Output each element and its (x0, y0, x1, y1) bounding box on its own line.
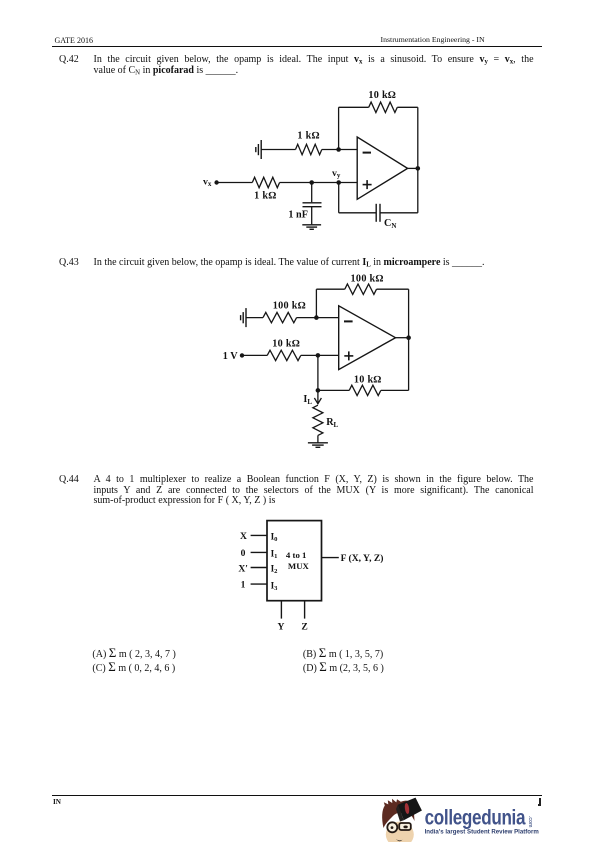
wire opamp output (396, 337, 409, 339)
resistor Rf 100 kOhm (top feedback) (316, 284, 408, 294)
svg-text:0: 0 (241, 548, 246, 559)
resistor R1 1 kOhm (to inverting input) (261, 144, 338, 154)
multiplexer U3 4-to-1 MUX box (267, 521, 322, 601)
footer rule (52, 795, 542, 796)
node output junction (416, 166, 421, 171)
svg-text:Z: Z (301, 622, 307, 633)
resistor R2 1 kOhm (input) (217, 177, 312, 187)
node junction inverting input (336, 147, 341, 152)
wire feedback left vertical (338, 107, 340, 149)
wire bottom feedback run (339, 168, 418, 212)
svg-text:100 kΩ: 100 kΩ (273, 301, 306, 312)
footer page number 1 (539, 798, 541, 804)
option D (303, 662, 384, 674)
ground (below 1 nF) (302, 225, 321, 230)
capacitor C1 1 nF (303, 183, 322, 225)
svg-text:Y: Y (278, 622, 285, 633)
svg-text:X: X (240, 531, 247, 542)
Q.43 text (59, 258, 536, 268)
wire to noninverting pin (318, 354, 339, 356)
header right: Instrumentation Engineering - IN (381, 35, 485, 44)
Q.44 text (59, 475, 536, 506)
svg-text:vy: vy (332, 168, 341, 180)
capacitor CN (feedback) (376, 204, 380, 222)
node junction load tap (316, 388, 321, 393)
ground (inverting input side, rotated) (256, 140, 261, 159)
svg-text:10 kΩ: 10 kΩ (354, 375, 382, 386)
wire RL to ground (317, 435, 319, 442)
svg-text:MUX: MUX (288, 561, 310, 571)
node junction noninverting input (316, 353, 321, 358)
option A (92, 648, 175, 660)
node input terminal 1V (240, 353, 244, 357)
wire opamp output (408, 167, 418, 169)
option B (303, 648, 383, 660)
node junction vy (336, 180, 341, 185)
svg-text:I1: I1 (271, 548, 278, 560)
wire feedback right vertical (417, 107, 419, 168)
header left: GATE 2016 (55, 36, 93, 45)
wire feedback left vertical (315, 289, 317, 317)
svg-text:RL: RL (326, 417, 338, 429)
svg-text:collegedunia: collegedunia (425, 805, 526, 829)
wire input 1 (251, 583, 267, 585)
wire IL arrow (314, 390, 321, 403)
svg-text:vx: vx (203, 177, 212, 189)
svg-text:India's largest Student Review: India's largest Student Review Platform (425, 828, 540, 835)
node junction inverting input (314, 315, 319, 320)
Q.42 text (59, 55, 536, 76)
op-amp U1 (357, 137, 407, 199)
svg-text:I2: I2 (271, 563, 279, 575)
svg-text:.com: .com (527, 816, 533, 828)
svg-text:I3: I3 (271, 580, 279, 592)
option C (92, 662, 175, 674)
node output junction (406, 335, 411, 340)
op-amp U2 (339, 306, 396, 370)
node input terminal vx (214, 180, 218, 184)
svg-text:1: 1 (241, 580, 246, 591)
svg-text:X′: X′ (238, 563, 248, 574)
svg-text:10 kΩ: 10 kΩ (272, 338, 300, 349)
node junction capacitor tap (309, 180, 314, 185)
svg-text:100 kΩ: 100 kΩ (351, 273, 384, 284)
wire select Z (304, 601, 306, 619)
ground (inverting input side, rotated) (241, 308, 246, 327)
footer left: IN (53, 798, 61, 806)
wire select Y (280, 601, 282, 619)
resistor R-feedback 10 kOhm (339, 102, 418, 112)
wire to opamp minus pin (316, 317, 338, 319)
resistor R2 10 kOhm (input) (242, 350, 318, 360)
resistor R1 100 kOhm (to inverting input) (246, 312, 316, 322)
wire feedback right vertical (408, 289, 410, 338)
ground (below RL) (308, 443, 328, 448)
wire input 0 (251, 551, 267, 553)
svg-text:I0: I0 (271, 531, 279, 543)
resistor R3 10 kOhm (bottom feedback) (318, 338, 409, 396)
svg-text:CN: CN (384, 218, 396, 230)
svg-text:F (X, Y, Z): F (X, Y, Z) (341, 553, 384, 564)
header rule (52, 46, 542, 47)
wire output F (322, 557, 339, 559)
resistor RL (load) (313, 405, 323, 435)
svg-text:1 kΩ: 1 kΩ (254, 190, 276, 201)
svg-text:IL: IL (303, 394, 312, 406)
svg-text:1 nF: 1 nF (288, 210, 308, 221)
wire noninverting node down (317, 355, 319, 390)
svg-text:1 kΩ: 1 kΩ (297, 131, 319, 142)
svg-text:10 kΩ: 10 kΩ (368, 90, 396, 101)
wire to opamp minus pin (339, 149, 358, 151)
svg-text:4 to 1: 4 to 1 (286, 550, 307, 560)
wire to noninverting pin (312, 182, 358, 184)
wire input X' (251, 567, 267, 569)
svg-text:1 V: 1 V (223, 351, 238, 362)
wire input X (251, 534, 267, 536)
